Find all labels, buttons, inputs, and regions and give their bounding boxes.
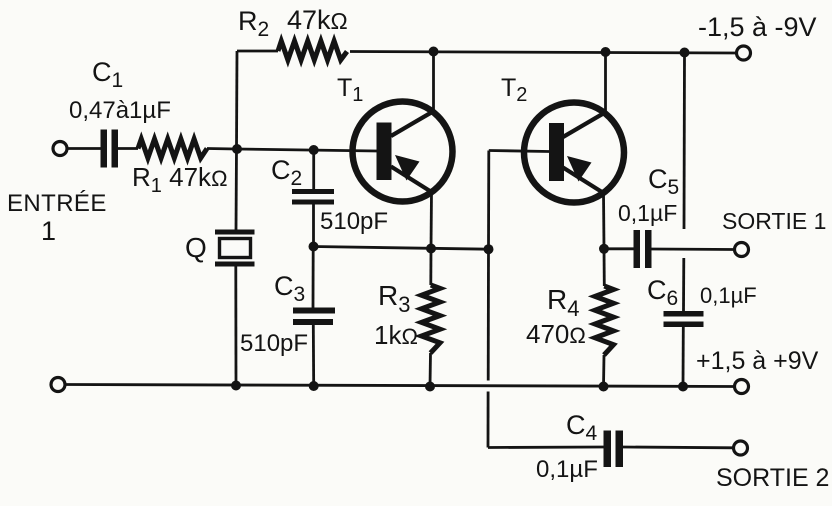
wire C3 upper lead (312, 247, 315, 308)
resistor R2 (278, 41, 347, 60)
wire T1 emitter down (430, 192, 433, 249)
svg-text:SORTIE 2: SORTIE 2 (716, 464, 829, 492)
terminal +V bottom right (735, 380, 749, 394)
capacitor C6 (664, 311, 704, 317)
capacitor C3 (293, 308, 335, 314)
node collector T1 (429, 47, 439, 57)
transistor T2 (524, 103, 624, 203)
svg-text:47kΩ: 47kΩ (287, 5, 348, 35)
wire C6 vertical lower (682, 258, 685, 311)
svg-text:1: 1 (41, 216, 56, 246)
node rail/C6 (678, 382, 688, 392)
wire T2 base horizontal (489, 151, 549, 152)
svg-text:ENTRÉE: ENTRÉE (7, 190, 107, 217)
wire C6 bottom lead (682, 327, 685, 387)
node T2 base leg (484, 244, 494, 254)
wire base T1 (237, 149, 377, 151)
svg-text:470Ω: 470Ω (526, 319, 586, 349)
capacitor C1 (101, 130, 108, 168)
node rail/C3 (309, 381, 319, 391)
terminal ENTREE 1 (53, 142, 67, 156)
svg-text:Q: Q (185, 232, 207, 263)
terminal bottom left (51, 378, 65, 392)
capacitor C5 (634, 230, 641, 268)
resistor R3 (429, 249, 432, 286)
wire C2 upper lead (312, 150, 315, 189)
transistor T1 (353, 102, 453, 202)
wire C4 horizontal left (488, 446, 604, 449)
wire bottom rail (65, 385, 735, 387)
wire T2 collector (604, 52, 607, 112)
wire input to C1 (67, 147, 101, 150)
capacitor C2 (292, 189, 334, 194)
wire T2 emitter down (602, 193, 605, 249)
svg-text:510pF: 510pF (240, 330, 308, 357)
node C3 top (309, 242, 319, 252)
node top-left corner / vertical feed wire (235, 51, 238, 149)
crystal Q (215, 149, 255, 386)
wire C2 lower lead (312, 205, 315, 247)
wire C3 lower lead (312, 325, 315, 386)
svg-text:+1,5 à +9V: +1,5 à +9V (696, 347, 819, 375)
wire C1 to R1 (118, 147, 138, 150)
wire T2 base leg vertical upper (487, 151, 490, 250)
terminal -V top right (737, 46, 751, 60)
node R1/base junction (232, 144, 242, 154)
wire C4 to SORTIE 2 (623, 446, 734, 450)
svg-text:0,1µF: 0,1µF (700, 283, 757, 308)
wire T1 collector (432, 52, 435, 113)
svg-text:1kΩ: 1kΩ (374, 320, 418, 350)
wire T2 base leg vertical lower (crosses rail with gap) (487, 249, 490, 380)
wire top rail (237, 50, 278, 53)
terminal SORTIE 2 (734, 441, 748, 455)
terminal SORTIE 1 (735, 243, 749, 257)
svg-text:SORTIE 1: SORTIE 1 (722, 208, 826, 234)
svg-text:510pF: 510pF (320, 208, 388, 235)
svg-text:0,47à1µF: 0,47à1µF (69, 97, 171, 124)
wire emitter to C5 (604, 247, 634, 250)
node C6 top (680, 48, 690, 58)
node collector T2 (601, 47, 611, 57)
wire C6 vertical upper (683, 53, 686, 230)
node rail/R4 (599, 382, 609, 392)
node T2 emitter/R4/C5 (599, 244, 609, 254)
wire C5 to SORTIE 1 (652, 248, 735, 251)
svg-text:0,1µF: 0,1µF (536, 456, 598, 483)
resistor R4 (603, 249, 606, 286)
resistor R1 (138, 139, 207, 158)
capacitor C4 (604, 431, 612, 468)
node C2 top (309, 145, 319, 155)
node T1 emitter/R3 (426, 244, 436, 254)
wire R1 to node (207, 147, 237, 150)
svg-text:0,1µF: 0,1µF (618, 200, 677, 226)
node rail/R3 (425, 382, 435, 392)
node rail/crystal (231, 381, 241, 391)
wire emitter bus (C2/C3 to T2 base leg) (314, 247, 489, 250)
svg-text:-1,5 à -9V: -1,5 à -9V (698, 12, 817, 42)
